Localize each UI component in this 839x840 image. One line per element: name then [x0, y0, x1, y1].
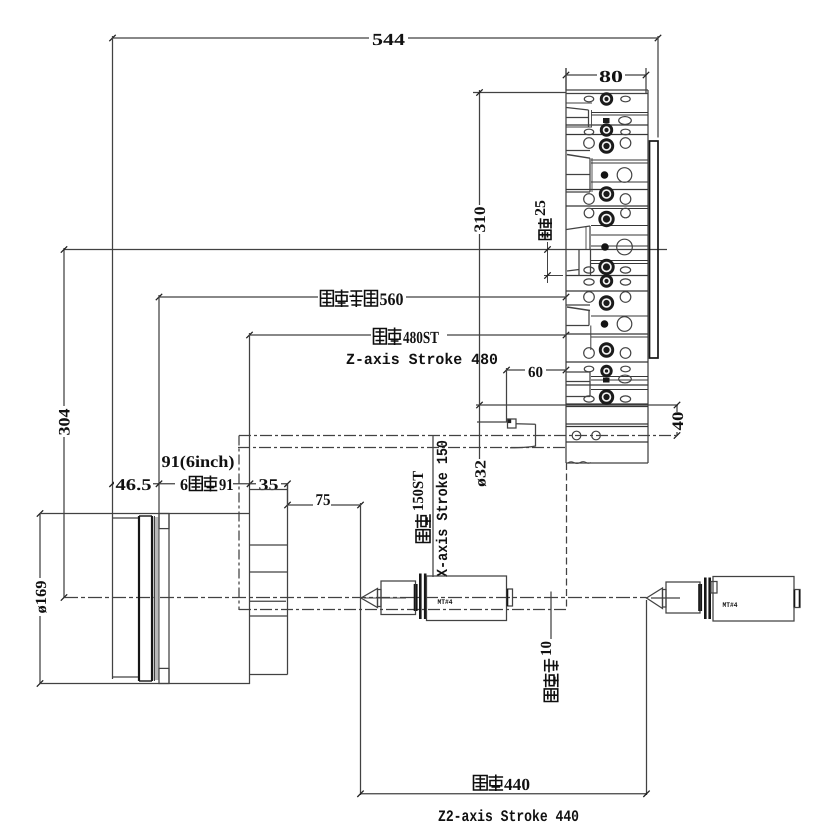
svg-text:46.5: 46.5: [116, 475, 152, 494]
dim 75: [287, 484, 289, 505]
extension line right x658: [657, 36, 659, 138]
dim tool square 25: [544, 249, 563, 251]
labels 150ST rotated: [416, 530, 430, 543]
svg-text:440: 440: [504, 775, 530, 794]
mid block x250-287: [250, 489, 288, 491]
svg-text:480ST: 480ST: [403, 328, 440, 347]
dim 40 right side: [676, 405, 678, 436]
svg-text:6: 6: [180, 475, 188, 494]
dash-dot X travel y447.5: [238, 447, 566, 449]
spindle centerline y597.5: [64, 597, 647, 599]
adapter step bottom: [159, 668, 169, 683]
machining space 560 dim line y297: [159, 296, 566, 298]
svg-text:MT#4: MT#4: [438, 599, 453, 607]
svg-text:MT#4: MT#4: [723, 602, 738, 610]
svg-text:60: 60: [528, 364, 543, 381]
left center step: [378, 590, 382, 607]
svg-text:75: 75: [316, 490, 331, 509]
svg-text:35: 35: [259, 475, 279, 494]
plate hole pattern: [584, 96, 593, 102]
long line y250 tool center row: [64, 249, 667, 251]
right dead center tip cone: [647, 588, 663, 609]
svg-text:91: 91: [219, 475, 234, 494]
extension from right tip down: [646, 600, 648, 795]
adapter step top: [159, 514, 169, 529]
gang tool plate outline: [565, 68, 567, 463]
extension line left x112: [112, 36, 114, 516]
tool tip line y405: [476, 404, 678, 406]
left center front cylinder: [381, 581, 416, 615]
dim 35: [250, 483, 288, 485]
dim 544 top horizontal: [113, 37, 659, 39]
dim Z2 stroke 440 bottom: [361, 793, 647, 795]
chuck / spindle housing top line y513.5: [40, 513, 250, 515]
tool holder station 3 (center tool): [567, 226, 591, 230]
dash-dot past-center line y609.5: [239, 609, 567, 611]
bottom tool station 6 with tip: [477, 421, 508, 423]
left center flange bars: [419, 574, 422, 620]
dim 310 vertical: [473, 92, 566, 94]
chuck body: [113, 517, 140, 519]
right body notch: [711, 582, 717, 594]
svg-text:544: 544: [372, 30, 406, 49]
Z-axis stroke 480 dim line y335: [250, 334, 567, 336]
right center flange bars: [704, 578, 707, 620]
svg-text:Z2-axis Stroke 440: Z2-axis Stroke 440: [438, 808, 579, 826]
dia169 dim vertical x40: [39, 514, 41, 684]
dashed vertical x566.5 below plate: [566, 463, 568, 610]
svg-text:ø32: ø32: [473, 460, 490, 487]
rail behind plate: [650, 141, 659, 358]
right body tab: [794, 590, 800, 608]
svg-text:Z-axis Stroke 480: Z-axis Stroke 480: [346, 351, 498, 369]
right center step: [663, 590, 667, 608]
left tailstock body: [427, 576, 507, 621]
tool holder station 4: [566, 304, 590, 306]
dim 91 6inch: [159, 483, 250, 485]
adapter gray band: [154, 517, 159, 680]
extension line x249.5: [249, 333, 251, 684]
svg-text:X-axis Stroke 150: X-axis Stroke 150: [434, 440, 452, 577]
dim 46.5 row y484: [113, 483, 160, 485]
plate station lines full: [566, 124, 648, 126]
svg-text:304: 304: [57, 409, 74, 436]
svg-text:25: 25: [533, 200, 549, 216]
right tailstock body: [713, 577, 794, 622]
plate partial lines right: [591, 112, 648, 114]
extension line x159: [158, 295, 160, 529]
svg-text:91(6inch): 91(6inch): [162, 452, 235, 471]
left body tab: [507, 589, 513, 606]
dash-dot vertical x239: [238, 436, 240, 611]
chuck jaw plate (dark): [151, 516, 153, 681]
tool holder station 2: [566, 150, 590, 152]
dia32 label: [471, 459, 488, 488]
dim 304 vertical line x64: [63, 248, 65, 598]
plate partial lines left: [566, 102, 592, 104]
plate bottom break line: [568, 462, 591, 464]
tool holder station 5: [567, 371, 591, 373]
X-axis stroke dim vertical x433: [432, 436, 434, 577]
dim 80 over tool plate: [566, 74, 646, 76]
past-center leader: [550, 592, 552, 640]
svg-text:150ST: 150ST: [410, 470, 427, 511]
extension x360.5 down to stroke440: [360, 503, 362, 795]
svg-text:10: 10: [538, 641, 555, 656]
right center front cylinder: [666, 582, 700, 613]
svg-text:80: 80: [599, 67, 623, 86]
dim 60: [507, 369, 567, 371]
svg-text:560: 560: [380, 289, 404, 309]
tool holder station 1: [567, 108, 589, 111]
housing bottom line y683.5: [40, 683, 250, 685]
svg-text:310: 310: [472, 207, 489, 233]
svg-text:ø169: ø169: [33, 580, 50, 613]
dash-dot X travel upper y435.5: [239, 435, 678, 437]
left live center tip cone: [361, 589, 378, 608]
spindle housing body: [168, 514, 170, 684]
svg-text:40: 40: [670, 412, 687, 431]
